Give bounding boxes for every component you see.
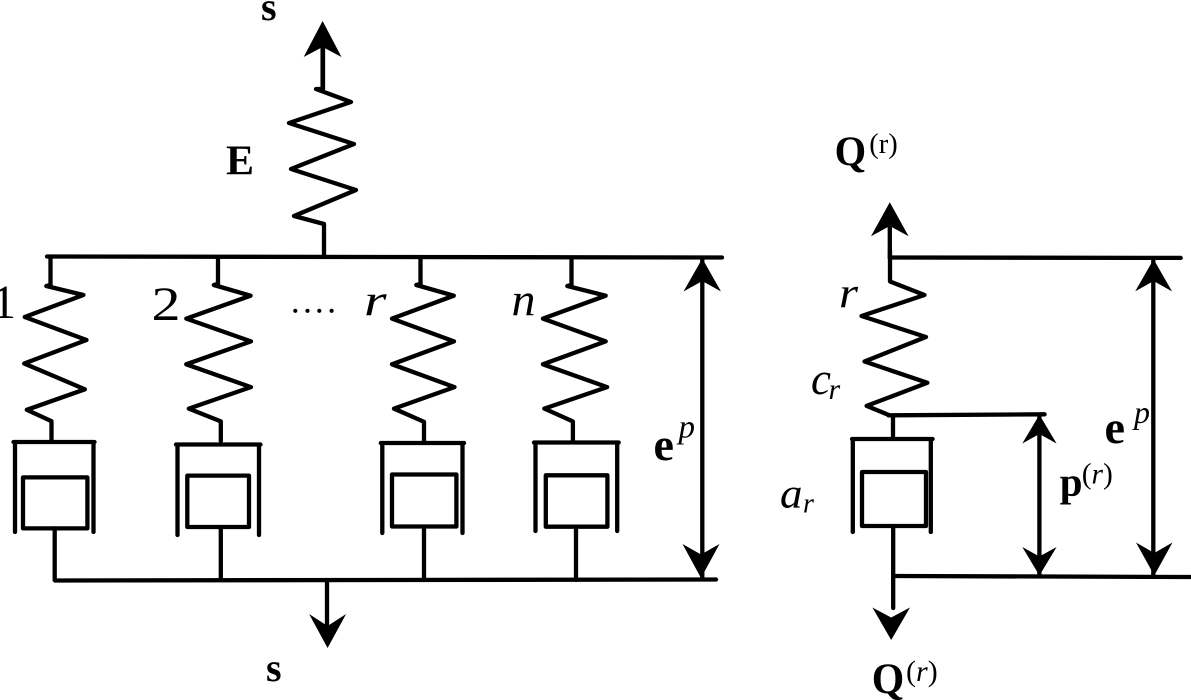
svg-text:Q: Q bbox=[872, 656, 905, 700]
svg-text:(r): (r) bbox=[906, 655, 938, 688]
svg-text:r: r bbox=[364, 276, 388, 325]
svg-text:e: e bbox=[1105, 402, 1126, 454]
node: top bar (left model) bbox=[47, 257, 722, 258]
wire: link spring bottom to p-dim bbox=[889, 414, 1045, 415]
arrowhead: Q top up (right model) bbox=[871, 202, 909, 236]
svg-text:p: p bbox=[677, 410, 696, 446]
svg-text:(r): (r) bbox=[869, 129, 897, 160]
svg-text:E: E bbox=[226, 139, 254, 185]
dots .... between branch 2 and r bbox=[293, 309, 297, 313]
wire: stub branch 1 bbox=[48, 257, 52, 285]
svg-text:(r): (r) bbox=[1082, 459, 1113, 491]
dashpot n cup bbox=[534, 443, 619, 532]
arrowhead: p^(r) bottom bbox=[1022, 547, 1056, 576]
spring n-branch bbox=[543, 285, 607, 441]
svg-text:r: r bbox=[829, 373, 841, 406]
wire: rod spring to dashpot (right) bbox=[891, 416, 895, 438]
spring 1 bbox=[24, 285, 86, 441]
dashpot 2 piston bbox=[187, 476, 249, 527]
svg-text:Q: Q bbox=[835, 130, 867, 176]
svg-text:s: s bbox=[266, 645, 282, 690]
arrowhead: e-p right top bbox=[1135, 259, 1172, 291]
wire: arrow shaft top s bbox=[320, 48, 324, 89]
spring E bbox=[289, 48, 356, 257]
wire: stub branch n bbox=[569, 258, 573, 285]
svg-text:s: s bbox=[261, 0, 277, 29]
svg-text:n: n bbox=[512, 275, 536, 327]
node: bottom bar (left model) bbox=[55, 580, 716, 581]
spring c_r bbox=[862, 250, 928, 415]
node: top rail (right model) bbox=[890, 255, 1181, 260]
dashpot r piston bbox=[392, 475, 456, 527]
arrowhead: e-p right bottom bbox=[1136, 543, 1173, 576]
svg-text:2: 2 bbox=[152, 278, 181, 331]
wire: dimension line e-p left bbox=[700, 259, 704, 578]
dashpot n piston bbox=[546, 475, 608, 526]
arrowhead: e-p left top bbox=[684, 259, 722, 292]
spring r-branch bbox=[392, 284, 455, 441]
arrowhead: top s up bbox=[304, 21, 342, 57]
wire: dimension line e-p right bbox=[1151, 259, 1155, 576]
svg-text:p: p bbox=[1132, 394, 1150, 430]
dashpot 1 cup bbox=[14, 442, 95, 532]
wire: shaft bottom s arrow bbox=[325, 580, 329, 628]
wire: rod dashpot 1 to bottom bar bbox=[53, 528, 57, 580]
dashpot r cup bbox=[381, 443, 464, 533]
dashpot 2 cup bbox=[176, 445, 261, 536]
arrowhead: e-p left bottom bbox=[683, 544, 720, 578]
arrowhead: bottom s down bbox=[309, 614, 346, 648]
dashpot a_r cup bbox=[852, 439, 933, 532]
svg-text:r: r bbox=[803, 489, 814, 520]
svg-text:e: e bbox=[654, 419, 674, 470]
dashpot a_r piston bbox=[862, 472, 926, 526]
wire: shaft top Q arrow (right model) bbox=[888, 226, 892, 258]
node: bottom rail (right model) bbox=[893, 576, 1191, 577]
wire: stub branch r bbox=[418, 258, 422, 284]
wire: rod dashpot 2 to bottom bar bbox=[219, 527, 223, 580]
dashpot 1 piston bbox=[23, 477, 87, 528]
wire: rod dashpot n to bottom bar bbox=[574, 527, 578, 580]
spring 2 bbox=[186, 284, 251, 441]
wire: dimension line p^(r) bbox=[1037, 415, 1041, 576]
svg-text:p: p bbox=[1060, 459, 1083, 505]
wire: stub branch 2 bbox=[216, 258, 220, 284]
svg-text:r: r bbox=[839, 271, 858, 318]
svg-text:1: 1 bbox=[0, 276, 16, 329]
wire: rod dashpot to bottom (right) bbox=[891, 526, 895, 608]
arrowhead: p^(r) top bbox=[1022, 415, 1056, 444]
wire: rod dashpot r to bottom bar bbox=[422, 527, 426, 581]
svg-text:a: a bbox=[780, 472, 803, 518]
arrowhead: Q bottom down (right model) bbox=[872, 608, 910, 641]
